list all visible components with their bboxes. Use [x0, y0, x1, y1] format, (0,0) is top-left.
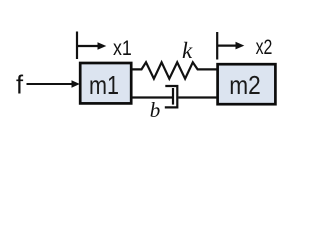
- damper rod right: [178, 96, 217, 98]
- svg-text:k: k: [182, 38, 193, 63]
- damper piston plate: [172, 88, 174, 105]
- damper cylinder cup: [165, 86, 178, 107]
- svg-text:x2: x2: [256, 35, 273, 59]
- damper rod left: [132, 96, 174, 98]
- mass m2: [218, 64, 276, 104]
- svg-text:f: f: [16, 71, 24, 99]
- x2 arrow: [217, 44, 237, 46]
- svg-text:x1: x1: [113, 36, 132, 60]
- x1 arrow: [77, 45, 99, 47]
- x1 reference tick: [76, 32, 78, 60]
- svg-text:m1: m1: [89, 70, 119, 100]
- force arrow f: [27, 83, 74, 85]
- mass m1: [80, 63, 131, 103]
- svg-text:m2: m2: [229, 70, 260, 100]
- svg-text:b: b: [150, 98, 161, 122]
- spring k: [132, 62, 217, 78]
- x2 reference tick: [216, 32, 218, 60]
